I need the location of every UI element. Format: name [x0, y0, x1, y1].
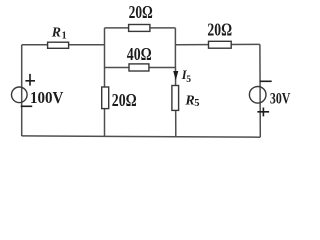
resistor R1: [48, 42, 69, 48]
svg-text:20Ω: 20Ω: [129, 2, 153, 22]
source V1 100V circle: [11, 87, 27, 103]
svg-text:1: 1: [62, 31, 67, 42]
wire left vertical: [21, 45, 23, 136]
wire middle vertical (node B branch): [104, 28, 106, 136]
svg-text:5: 5: [194, 98, 199, 109]
wire parallel box right vertical: [174, 28, 176, 68]
source V2 30V circle: [249, 87, 266, 104]
wire top-left horizontal: [22, 44, 105, 46]
plus sign V1: [25, 74, 35, 86]
plus sign V2: [257, 108, 269, 117]
minus sign V2: [260, 80, 272, 82]
svg-text:R: R: [184, 93, 194, 108]
resistor 20ohm vertical middle: [102, 87, 109, 109]
wire R5 branch vertical: [175, 68, 177, 137]
wire parallel bottom branch (40 ohm): [105, 67, 176, 69]
resistor R5 vertical: [172, 86, 179, 111]
current arrow I5: [173, 71, 178, 80]
wire right vertical: [259, 44, 261, 137]
svg-text:20Ω: 20Ω: [207, 20, 232, 40]
svg-text:40Ω: 40Ω: [127, 44, 152, 64]
resistor 20ohm parallel top: [129, 25, 150, 32]
wire top-right horizontal: [175, 43, 260, 45]
wire parallel top branch: [105, 27, 176, 29]
svg-text:100V: 100V: [30, 88, 63, 107]
svg-text:30V: 30V: [270, 90, 291, 107]
resistor 20ohm top right: [209, 41, 232, 48]
svg-text:5: 5: [186, 75, 191, 85]
resistor 40ohm parallel bottom: [129, 64, 149, 71]
minus sign V1: [21, 105, 33, 107]
svg-text:R: R: [51, 24, 61, 39]
svg-text:20Ω: 20Ω: [112, 90, 137, 110]
wire bottom horizontal: [22, 136, 261, 137]
